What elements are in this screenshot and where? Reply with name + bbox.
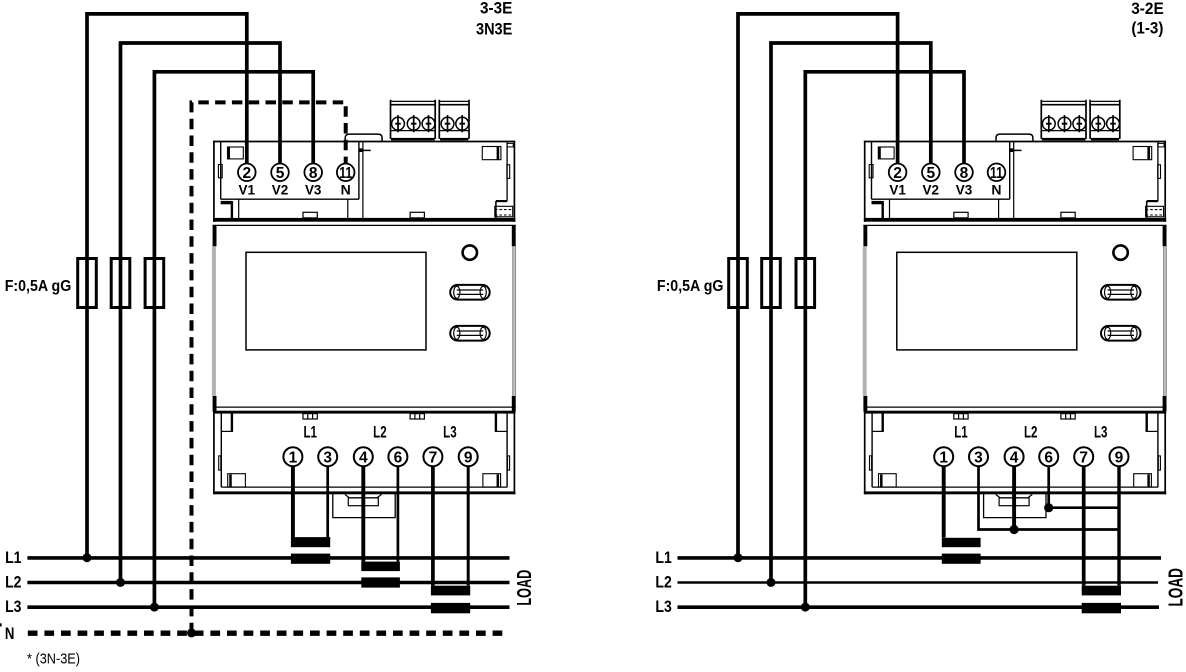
fuse F1: [78, 259, 97, 308]
dashed neutral wire N bus to terminal 11: [192, 102, 346, 633]
L1 bus line: [678, 556, 1162, 560]
CT L2: leads from terminals 4,6: [361, 466, 365, 562]
svg-text:L2: L2: [5, 574, 21, 592]
fuse F1: [729, 259, 748, 308]
CT L3 body: [431, 586, 470, 596]
wire L1 feed to V1 (terminal 2): [87, 14, 247, 558]
svg-text:L1: L1: [5, 549, 21, 567]
L1 bus line: [27, 556, 509, 560]
meter device: [863, 100, 1167, 518]
wire terminal 9 to CT L3: [1117, 466, 1120, 586]
CT L3: leads from terminals 7,9: [431, 466, 435, 586]
junction dot terminal 6 jumper: [1044, 503, 1053, 512]
wire terminal 7 to CT L3: [1082, 466, 1086, 586]
junction dot L3: [150, 603, 159, 612]
junction dot L2: [767, 578, 776, 587]
wire L2 feed to V2 (terminal 5): [121, 43, 281, 583]
wire L3 feed to V3 (terminal 8): [805, 72, 964, 607]
wire L3 feed to V3 (terminal 8): [154, 72, 313, 607]
wire L2 feed to V2 (terminal 5): [771, 43, 931, 583]
junction dot L2: [116, 578, 125, 587]
fuse F3: [145, 259, 164, 308]
L3 bus line: [678, 605, 1160, 609]
wire terminal 4 to jumper: [1012, 466, 1016, 530]
svg-text:L3: L3: [5, 598, 21, 616]
svg-text:3-3E: 3-3E: [480, 0, 512, 17]
svg-text:3N3E: 3N3E: [476, 20, 512, 39]
junction dot L1: [734, 553, 743, 562]
wire L1 feed to V1 (terminal 2): [738, 14, 898, 558]
junction dot L1: [83, 553, 92, 562]
junction dot N: [187, 628, 196, 637]
svg-text:F:0,5A gG: F:0,5A gG: [5, 278, 72, 295]
wire terminal 3 common jumper: [979, 466, 1120, 530]
CT L3 body: [1082, 586, 1121, 596]
svg-text:LOAD: LOAD: [514, 570, 536, 606]
svg-text:LOAD: LOAD: [1166, 568, 1186, 607]
L3 bus line: [27, 605, 509, 609]
wire terminal 6 common jumper: [1049, 466, 1119, 508]
svg-text:(1-3): (1-3): [1131, 18, 1163, 37]
svg-text:L3: L3: [655, 598, 671, 616]
CT L1 body: [291, 538, 330, 547]
svg-text:3-2E: 3-2E: [1131, 0, 1164, 18]
svg-text:L1: L1: [655, 549, 671, 567]
CT L2 body: [361, 562, 400, 572]
L2 bus line: [27, 581, 509, 585]
N bus line dashed: [28, 631, 509, 636]
svg-text:* (3N-3E): * (3N-3E): [27, 652, 80, 668]
L2 bus line: [678, 581, 1159, 584]
clipped asterisk at left edge: [0, 623, 2, 626]
junction dot L3: [801, 603, 810, 612]
CT L1 body: [942, 538, 981, 547]
fuse F2: [111, 259, 130, 308]
svg-text:F:0,5A gG: F:0,5A gG: [657, 278, 724, 295]
svg-text:L2: L2: [655, 574, 671, 592]
svg-text:N: N: [5, 624, 15, 643]
wire terminal 1 to CT L1: [942, 466, 946, 538]
CT L1: leads from terminals 1,3: [291, 466, 295, 538]
fuse F3: [796, 259, 815, 308]
fuse F2: [762, 259, 781, 308]
meter device: [212, 100, 516, 518]
junction dot terminal 4 jumper: [1010, 525, 1019, 534]
